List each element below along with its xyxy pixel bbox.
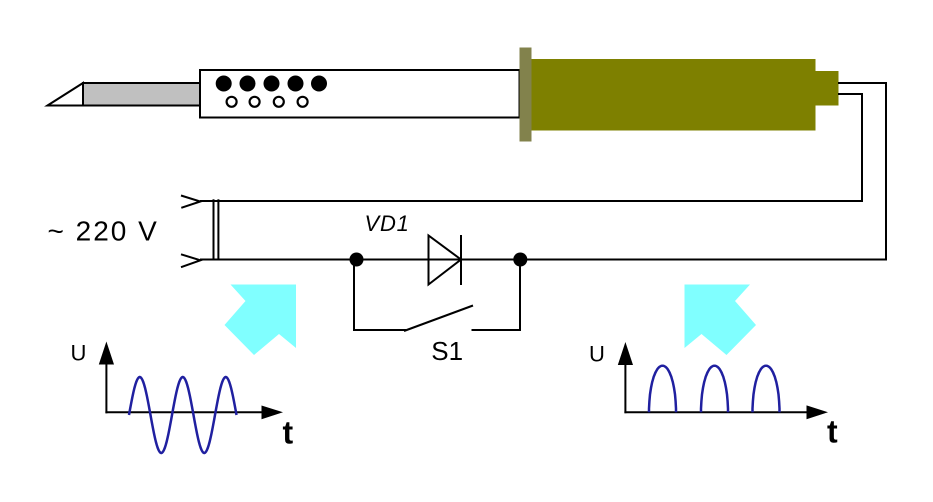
handle flange: [520, 48, 532, 142]
wire cord upper: [200, 83, 886, 260]
vent hole dot 1: [216, 76, 232, 92]
diode VD1 cathode bar: [460, 235, 462, 285]
switch S1 right lead: [472, 260, 521, 331]
vent hole dot 3: [264, 76, 280, 92]
svg-text:U: U: [589, 342, 605, 367]
right graph vertical axis arrowhead: [618, 342, 633, 365]
plug connector line 2: [217, 199, 219, 260]
vent hole ring 1: [227, 97, 237, 107]
svg-text:~ 220 V: ~ 220 V: [48, 216, 159, 247]
node left: [350, 253, 364, 267]
terminal bottom chevron: [181, 254, 200, 267]
node right: [513, 253, 527, 267]
handle body: [532, 59, 816, 131]
right graph hump 1: [649, 366, 676, 413]
left graph vertical axis: [105, 355, 107, 413]
right graph horizontal axis arrowhead: [807, 405, 829, 419]
switch S1 left lead: [354, 260, 406, 331]
vent hole dot 4: [288, 76, 304, 92]
svg-text:S1: S1: [431, 336, 463, 366]
soldering iron tip: [48, 83, 84, 106]
left graph horizontal axis: [105, 411, 270, 413]
cyan arrow left: [225, 285, 297, 356]
svg-text:t: t: [283, 415, 294, 451]
soldering iron barrel: [200, 70, 520, 118]
vent hole ring 3: [274, 97, 284, 107]
vent hole ring 4: [298, 97, 308, 107]
vent hole dot 2: [240, 76, 256, 92]
svg-text:VD1: VD1: [365, 211, 410, 236]
wire cord lower: [200, 94, 862, 201]
vent hole dot 5: [311, 76, 327, 92]
switch S1 blade: [404, 306, 473, 332]
left graph sine wave: [129, 377, 237, 453]
soldering iron rod: [83, 83, 201, 106]
svg-text:U: U: [71, 341, 87, 366]
left graph vertical axis arrowhead: [99, 342, 114, 365]
svg-text:t: t: [827, 414, 838, 450]
vent hole ring 2: [250, 97, 260, 107]
right graph horizontal axis: [624, 411, 815, 413]
cyan arrow right: [685, 285, 757, 356]
terminal top chevron: [181, 196, 200, 208]
right graph hump 3: [753, 366, 780, 413]
left graph horizontal axis arrowhead: [262, 406, 284, 420]
diode VD1 triangle: [429, 236, 462, 285]
right graph vertical axis: [624, 355, 626, 413]
right graph hump 2: [701, 366, 728, 413]
handle end cap: [816, 71, 839, 106]
plug connector line 1: [213, 199, 215, 260]
